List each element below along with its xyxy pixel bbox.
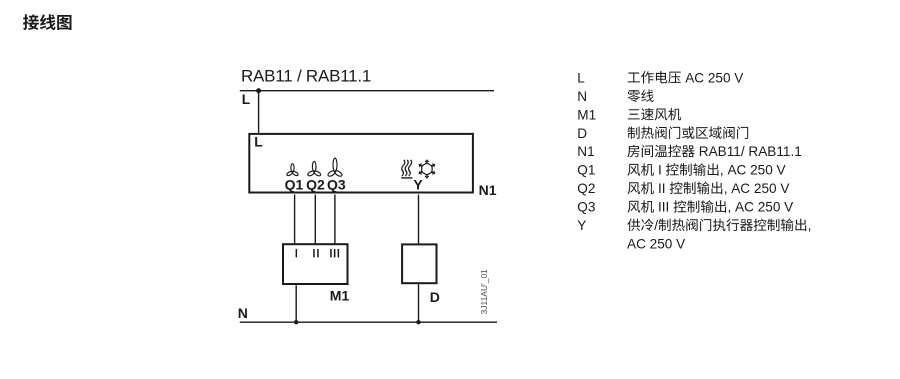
svg-text:, AC 250 V: , AC 250 V [720, 163, 786, 178]
valve actuator D box [402, 244, 436, 283]
fan speed II icon (medium propeller) [307, 161, 321, 176]
svg-text:N1: N1 [479, 182, 497, 198]
fan speed I icon (small propeller) [286, 164, 299, 177]
svg-text:L: L [577, 70, 585, 85]
svg-text:3J11AU'_01: 3J11AU'_01 [479, 269, 489, 315]
page title 接线图 (Wiring diagram) [23, 14, 72, 30]
svg-text:Q1: Q1 [577, 163, 595, 178]
svg-text:L: L [242, 92, 250, 107]
wire: Q3 to fan speed III [334, 195, 336, 245]
svg-text:D: D [430, 289, 440, 305]
node: junction dot on L line [256, 88, 261, 93]
svg-text:Y: Y [577, 218, 586, 233]
svg-text:Q2: Q2 [306, 176, 325, 192]
svg-text:II: II [658, 181, 666, 196]
wire: N neutral line [240, 321, 497, 323]
svg-text:Q2: Q2 [577, 181, 595, 196]
svg-text:N: N [238, 305, 248, 321]
svg-text:Q3: Q3 [577, 200, 595, 215]
svg-text:III: III [658, 200, 669, 215]
svg-text:RAB11 / RAB11.1: RAB11 / RAB11.1 [241, 67, 371, 86]
wire: Q2 to fan speed II [314, 195, 316, 245]
three-speed fan M1 box [283, 244, 348, 284]
node: junction dot M1-N [294, 320, 298, 324]
svg-text:, AC 250 V: , AC 250 V [724, 181, 790, 196]
fan speed III icon (large propeller) [327, 158, 343, 177]
pin label I [296, 249, 298, 257]
svg-text:Q3: Q3 [327, 176, 346, 192]
wire: L supply line [240, 90, 494, 92]
wire: Q1 to fan speed I [294, 195, 296, 245]
room thermostat N1 box [249, 134, 473, 193]
cooling symbol (snowflake) for Y [418, 160, 436, 179]
wire: L line down to N1 terminal L [258, 91, 260, 134]
svg-text:M1: M1 [577, 107, 596, 122]
svg-text:AC 250 V: AC 250 V [627, 236, 685, 251]
svg-text:L: L [254, 135, 262, 150]
svg-text:Q1: Q1 [285, 176, 304, 192]
svg-text:N1: N1 [577, 144, 594, 159]
svg-text:I: I [658, 163, 662, 178]
heating symbol (wavy lines) for Y [401, 160, 412, 176]
svg-text:M1: M1 [330, 287, 350, 303]
pin label II [313, 249, 315, 257]
node: junction dot D-N [416, 320, 420, 324]
wire: D to N line [418, 284, 420, 322]
wire: Y to valve D [418, 195, 420, 244]
wire: M1 to N line [295, 285, 297, 322]
svg-text:N: N [577, 89, 587, 104]
pin label III [330, 249, 332, 257]
svg-text:Y: Y [413, 176, 423, 192]
svg-text:,: , [808, 218, 812, 233]
svg-text:AC 250 V: AC 250 V [685, 70, 743, 85]
svg-text:RAB11/ RAB11.1: RAB11/ RAB11.1 [699, 144, 802, 159]
svg-text:/: / [654, 218, 658, 233]
svg-text:, AC 250 V: , AC 250 V [728, 200, 794, 215]
svg-text:D: D [577, 126, 587, 141]
